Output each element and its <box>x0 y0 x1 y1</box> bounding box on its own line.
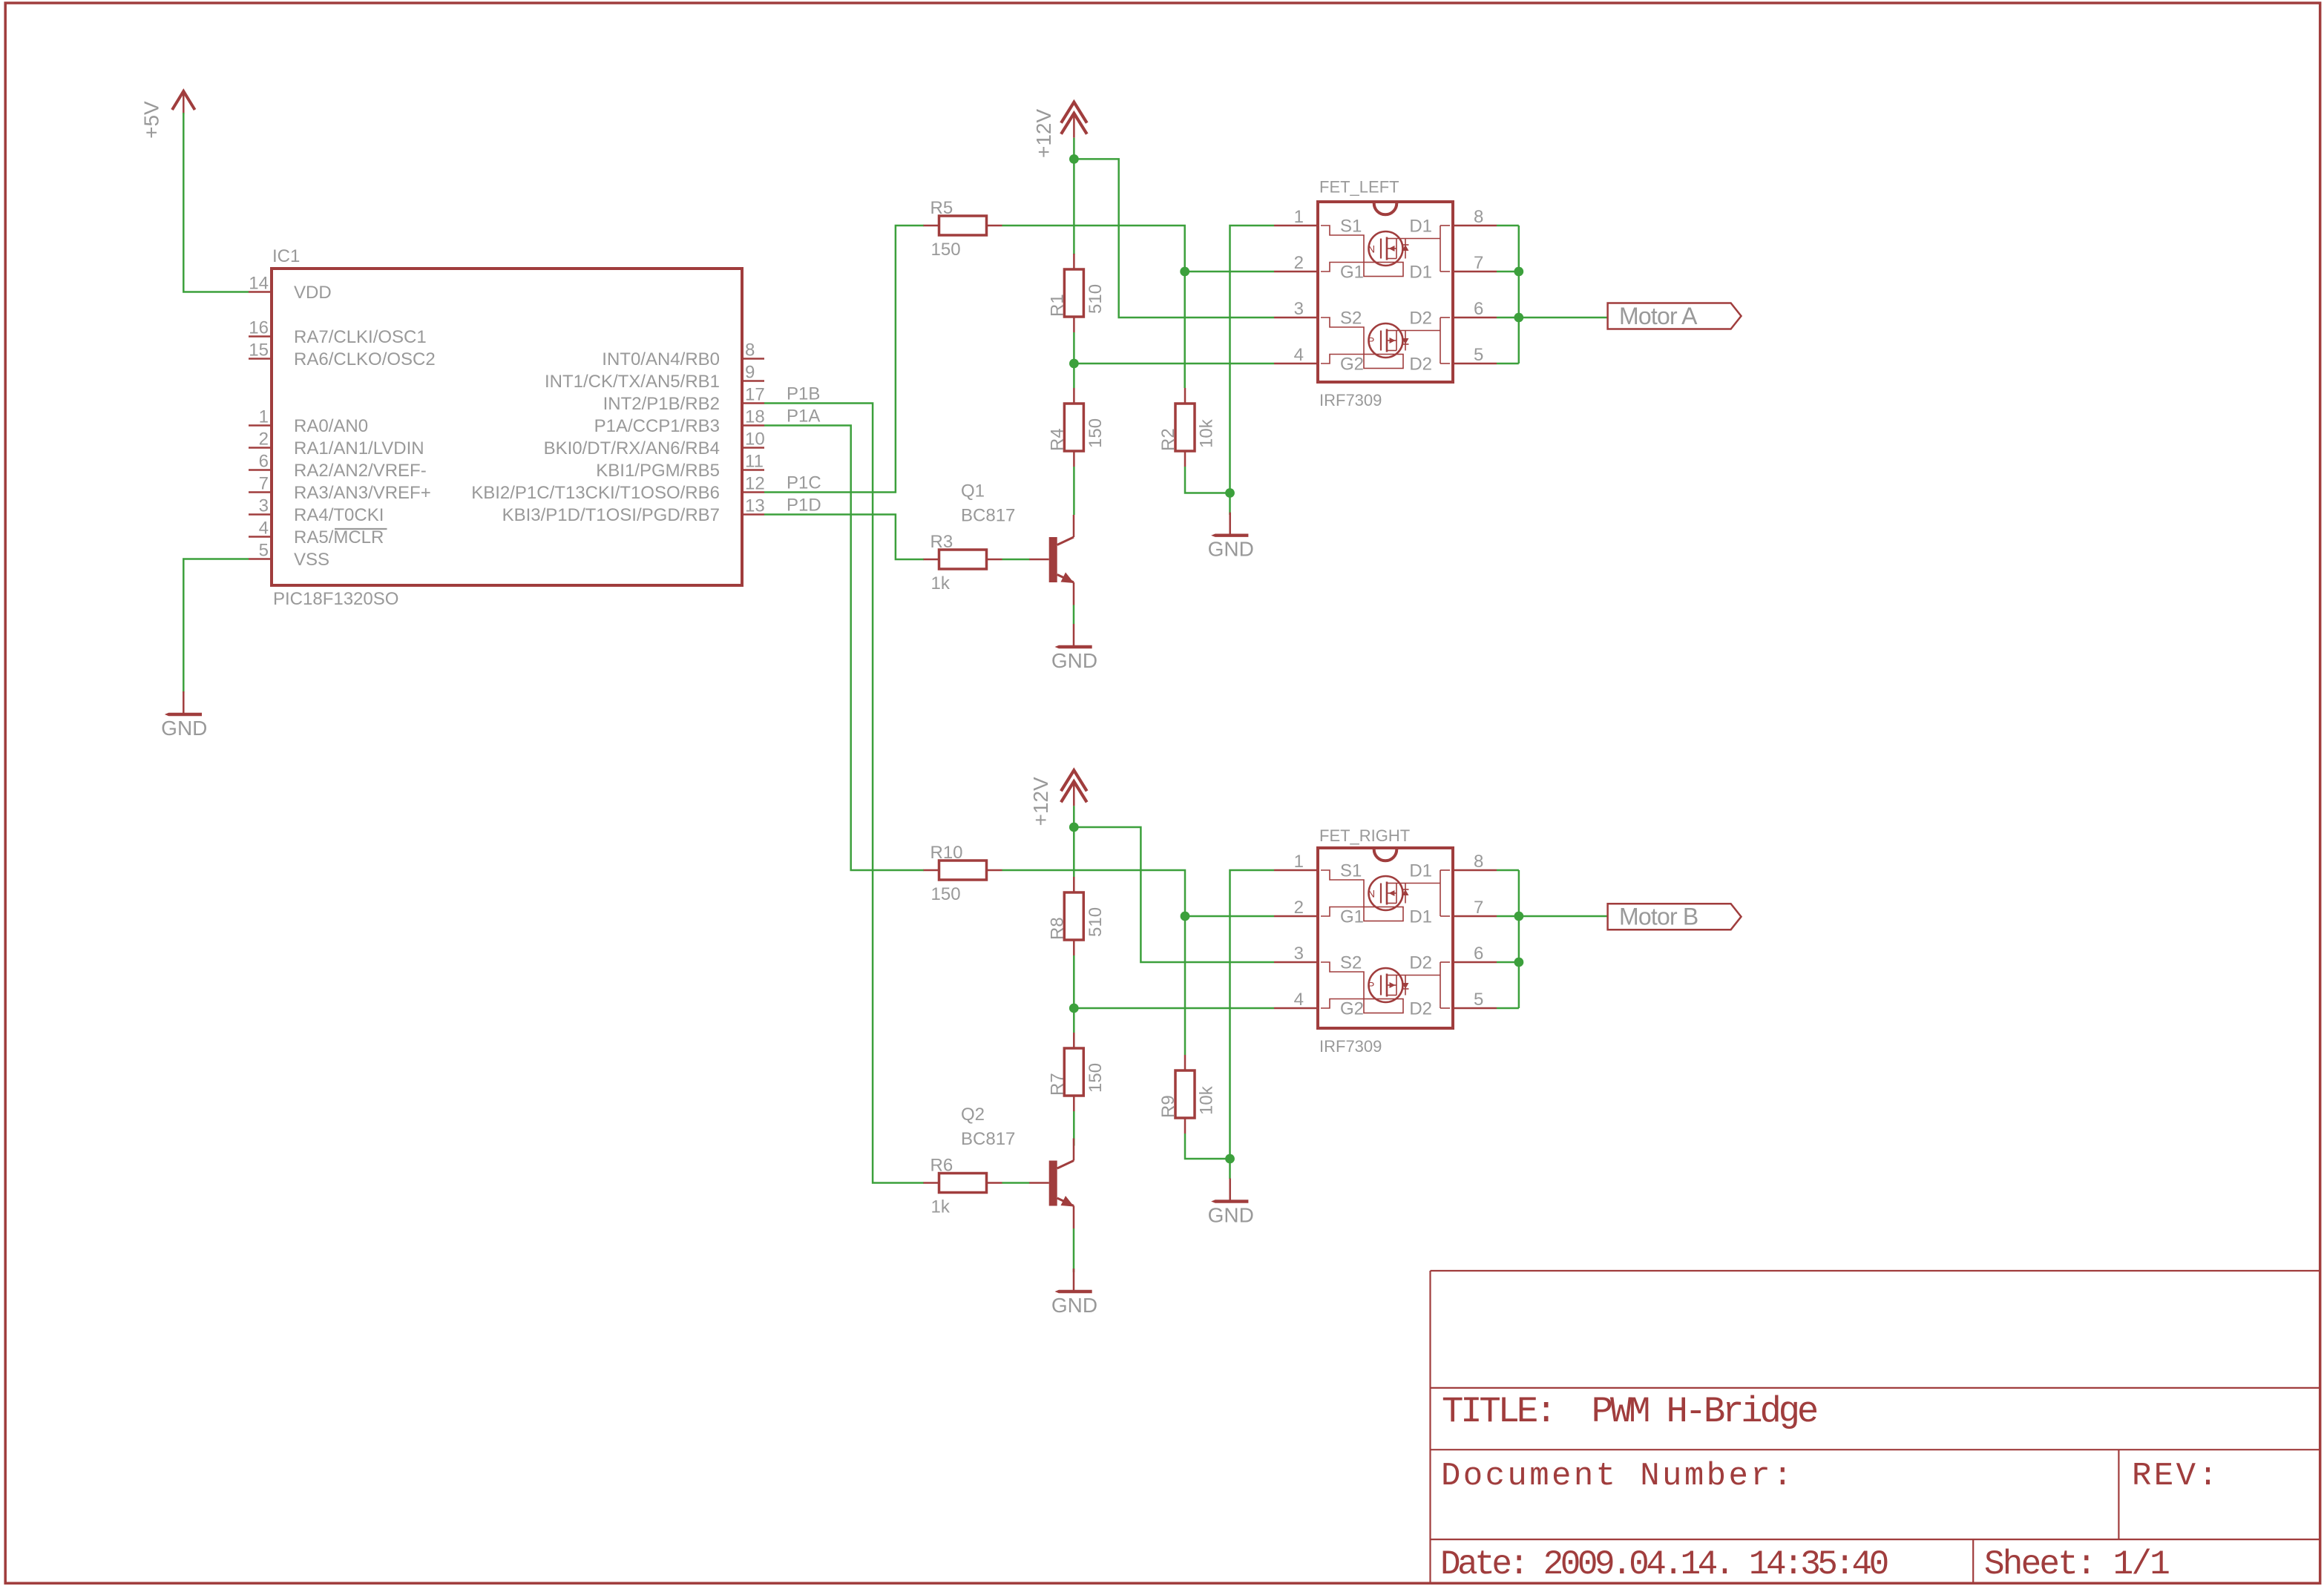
svg-text:RA0/AN0: RA0/AN0 <box>294 416 368 436</box>
wire Q1 emitter to ground <box>1073 605 1075 625</box>
svg-text:S2: S2 <box>1340 953 1362 973</box>
svg-text:Motor A: Motor A <box>1619 303 1698 329</box>
svg-text:R4: R4 <box>1047 428 1067 451</box>
svg-text:IRF7309: IRF7309 <box>1319 1037 1382 1056</box>
overline MCLR <box>335 528 387 530</box>
svg-text:Document Number:: Document Number: <box>1441 1458 1795 1495</box>
svg-text:1: 1 <box>1294 852 1304 872</box>
wire S1 pin 1 down to node lower <box>1230 870 1275 1159</box>
svg-text:RA7/CLKI/OSC1: RA7/CLKI/OSC1 <box>294 327 427 347</box>
junction G2 node <box>1069 359 1079 369</box>
junction S1 pulldown node lower <box>1225 1154 1235 1164</box>
wire R1 bottom to G2 node <box>1073 332 1075 363</box>
svg-text:D1: D1 <box>1409 263 1432 283</box>
svg-text:10k: 10k <box>1197 418 1217 448</box>
svg-text:RA2/AN2/VREF-: RA2/AN2/VREF- <box>294 461 427 481</box>
svg-text:R5: R5 <box>930 198 953 218</box>
svg-text:D2: D2 <box>1409 355 1432 375</box>
svg-text:1k: 1k <box>931 1197 951 1217</box>
svg-text:P1A/CCP1/RB3: P1A/CCP1/RB3 <box>594 416 720 436</box>
net flag Motor A <box>1608 303 1742 329</box>
ground GND at Q1 <box>1051 624 1097 672</box>
junction +12V node B <box>1069 823 1079 832</box>
resistor R2 <box>1158 388 1217 467</box>
svg-text:3: 3 <box>1294 299 1304 319</box>
svg-text:11: 11 <box>745 452 764 472</box>
junction G2 node lower <box>1069 1004 1079 1013</box>
svg-text:G2: G2 <box>1340 999 1364 1019</box>
svg-text:510: 510 <box>1086 284 1106 314</box>
title block frame <box>1431 1271 2320 1583</box>
svg-text:S1: S1 <box>1340 861 1362 881</box>
svg-text:6: 6 <box>1474 944 1483 964</box>
svg-text:7: 7 <box>1474 898 1483 918</box>
svg-text:3: 3 <box>259 496 269 516</box>
resistor R9 <box>1158 1055 1217 1134</box>
resistor R7 <box>1047 1033 1106 1111</box>
wire net P1A <box>764 426 924 871</box>
svg-text:PIC18F1320SO: PIC18F1320SO <box>273 589 398 609</box>
junction G1 node <box>1180 267 1189 277</box>
svg-text:P1D: P1D <box>787 496 821 516</box>
svg-text:10k: 10k <box>1197 1085 1217 1115</box>
junction +12V node A <box>1069 154 1079 164</box>
svg-text:KBI1/PGM/RB5: KBI1/PGM/RB5 <box>596 461 720 481</box>
svg-text:G1: G1 <box>1340 907 1364 927</box>
wire R7 to Q2 collector <box>1073 1111 1075 1146</box>
svg-text:P: P <box>1368 335 1374 347</box>
wire net P1B <box>764 404 924 1183</box>
resistor R6 <box>924 1156 1002 1217</box>
wire R10 to G1 vertical lower <box>1002 870 1186 1055</box>
svg-text:P: P <box>1368 980 1374 992</box>
svg-text:REV:: REV: <box>2132 1458 2220 1495</box>
svg-text:R6: R6 <box>930 1156 953 1176</box>
svg-text:3: 3 <box>1294 944 1304 964</box>
svg-text:150: 150 <box>931 884 961 904</box>
svg-text:+12V: +12V <box>1032 109 1055 158</box>
wire net P1D <box>764 515 924 560</box>
wire +12V to S2 pin 3 lower <box>1074 827 1274 962</box>
svg-text:150: 150 <box>931 240 961 260</box>
wire G2 to pin 4 <box>1074 363 1274 365</box>
ground GND left <box>161 691 207 740</box>
svg-text:150: 150 <box>1086 418 1106 448</box>
transistor Q2 BC817 <box>1029 1139 1074 1229</box>
svg-text:D2: D2 <box>1409 999 1432 1019</box>
svg-text:16: 16 <box>249 318 269 338</box>
svg-text:GND: GND <box>1208 1204 1254 1227</box>
svg-text:VSS: VSS <box>294 550 329 570</box>
svg-text:Q2: Q2 <box>961 1105 985 1125</box>
svg-text:R1: R1 <box>1047 294 1067 317</box>
svg-text:G1: G1 <box>1340 263 1364 283</box>
svg-text:D1: D1 <box>1409 907 1432 927</box>
wire G2 node to R7 <box>1073 1008 1075 1033</box>
supply +12V symbol <box>1061 770 1087 806</box>
junction S1 pulldown node <box>1225 488 1235 498</box>
svg-text:R3: R3 <box>930 532 953 552</box>
IC FET_LEFT IRF7309 dual MOSFET <box>1274 202 1497 382</box>
svg-text:BC817: BC817 <box>961 506 1015 526</box>
junction D1 bus <box>1514 267 1523 277</box>
svg-text:8: 8 <box>745 340 755 361</box>
svg-text:14: 14 <box>249 274 269 294</box>
resistor R10 <box>924 843 1002 904</box>
svg-text:P1B: P1B <box>787 384 820 404</box>
svg-text:7: 7 <box>259 474 269 494</box>
wire D1 D2 output bus left FET <box>1497 226 1519 363</box>
junction D1 bus lower <box>1514 912 1524 921</box>
svg-text:P1C: P1C <box>787 473 821 493</box>
wire G1 to pin 2 lower <box>1185 915 1274 918</box>
svg-text:IC1: IC1 <box>272 246 300 266</box>
svg-text:+12V: +12V <box>1029 777 1052 826</box>
svg-text:S1: S1 <box>1340 217 1362 237</box>
transistor Q1 BC817 <box>1029 515 1074 605</box>
svg-text:2: 2 <box>1294 898 1304 918</box>
svg-text:BKI0/DT/RX/AN6/RB4: BKI0/DT/RX/AN6/RB4 <box>544 438 720 458</box>
svg-text:GND: GND <box>161 717 207 740</box>
junction G1 node lower <box>1181 912 1190 921</box>
wire to Motor A flag <box>1519 317 1608 319</box>
svg-text:15: 15 <box>249 340 269 361</box>
wire R9 bottom to S1 node lower <box>1185 1134 1230 1159</box>
svg-text:KBI3/P1D/T1OSI/PGD/RB7: KBI3/P1D/T1OSI/PGD/RB7 <box>502 505 720 525</box>
supply +5V symbol <box>172 91 195 114</box>
svg-text:13: 13 <box>745 496 765 516</box>
ground GND at Q2 <box>1051 1269 1097 1317</box>
wire G2 to pin 4 lower <box>1074 1007 1274 1010</box>
wire R4 to Q1 collector <box>1073 467 1075 515</box>
svg-text:2: 2 <box>259 430 269 450</box>
wire +12V to S2 pin 3 <box>1074 159 1274 318</box>
svg-text:FET_RIGHT: FET_RIGHT <box>1319 826 1410 845</box>
wire S1 pin 1 down to node <box>1230 226 1275 493</box>
svg-text:N: N <box>1368 888 1375 900</box>
svg-text:9: 9 <box>745 363 755 383</box>
wire node to ground lower <box>1229 1159 1231 1179</box>
svg-text:R8: R8 <box>1047 917 1067 940</box>
svg-text:D2: D2 <box>1409 953 1432 973</box>
wire to Motor B flag <box>1519 915 1608 918</box>
svg-text:5: 5 <box>259 541 269 561</box>
IC IC1 PIC18F1320SO <box>249 269 765 585</box>
wire R2 bottom to S1 node <box>1185 467 1230 493</box>
svg-text:R10: R10 <box>930 843 963 863</box>
svg-text:Date: 2009.04.14. 14:35:40: Date: 2009.04.14. 14:35:40 <box>1440 1545 1888 1584</box>
svg-text:1: 1 <box>1294 207 1304 227</box>
svg-text:TITLE: PWM H-Bridge: TITLE: PWM H-Bridge <box>1442 1391 1817 1432</box>
ground GND at R2 <box>1208 513 1254 561</box>
svg-text:1k: 1k <box>931 573 951 593</box>
svg-text:KBI2/P1C/T13CKI/T1OSO/RB6: KBI2/P1C/T13CKI/T1OSO/RB6 <box>471 483 720 503</box>
svg-text:GND: GND <box>1051 649 1097 672</box>
svg-text:R7: R7 <box>1047 1073 1067 1096</box>
svg-text:2: 2 <box>1294 253 1304 273</box>
resistor R3 <box>924 532 1002 593</box>
svg-text:RA4/T0CKI: RA4/T0CKI <box>294 505 384 525</box>
svg-text:510: 510 <box>1086 907 1106 937</box>
wire G1 to pin 2 <box>1185 271 1274 273</box>
svg-text:5: 5 <box>1474 990 1483 1010</box>
svg-text:RA6/CLKO/OSC2: RA6/CLKO/OSC2 <box>294 349 436 369</box>
svg-text:10: 10 <box>745 430 765 450</box>
wire VSS pin 5 to GND <box>183 559 249 694</box>
wire G2 node to R4 <box>1073 363 1075 388</box>
svg-text:R2: R2 <box>1158 428 1178 451</box>
svg-text:S2: S2 <box>1340 309 1362 329</box>
svg-text:+5V: +5V <box>139 101 163 139</box>
svg-text:RA1/AN1/LVDIN: RA1/AN1/LVDIN <box>294 438 424 458</box>
wire net P1C <box>764 226 924 493</box>
svg-text:8: 8 <box>1474 207 1483 227</box>
svg-text:INT2/P1B/RB2: INT2/P1B/RB2 <box>603 394 720 414</box>
svg-text:RA5/MCLR: RA5/MCLR <box>294 527 384 547</box>
net flag Motor B <box>1608 904 1742 930</box>
wire R8 bottom to G2 node lower <box>1073 955 1075 1008</box>
svg-text:VDD: VDD <box>294 283 332 303</box>
svg-text:BC817: BC817 <box>961 1129 1015 1149</box>
svg-text:4: 4 <box>1294 345 1304 365</box>
wire node to ground <box>1229 493 1231 516</box>
supply +12V symbol <box>1061 102 1087 138</box>
wire Q2 emitter to ground <box>1073 1228 1075 1272</box>
svg-text:Sheet: 1/1: Sheet: 1/1 <box>1984 1545 2169 1584</box>
svg-text:INT1/CK/TX/AN5/RB1: INT1/CK/TX/AN5/RB1 <box>545 372 720 392</box>
svg-text:G2: G2 <box>1340 355 1364 375</box>
wire D1 D2 output bus right FET <box>1497 870 1519 1008</box>
svg-text:1: 1 <box>259 407 269 427</box>
svg-text:FET_LEFT: FET_LEFT <box>1319 178 1399 197</box>
svg-text:7: 7 <box>1474 253 1483 273</box>
svg-text:P1A: P1A <box>787 407 820 427</box>
svg-text:6: 6 <box>259 452 269 472</box>
wire +12V stem <box>1073 138 1075 159</box>
svg-text:150: 150 <box>1086 1063 1106 1093</box>
svg-text:4: 4 <box>1294 990 1304 1010</box>
resistor R1 <box>1047 254 1106 332</box>
resistor R4 <box>1047 388 1106 467</box>
wire +5V to VDD pin 14 <box>183 113 249 292</box>
svg-text:IRF7309: IRF7309 <box>1319 391 1382 409</box>
wire +12V to R8 <box>1073 827 1075 878</box>
svg-text:Motor B: Motor B <box>1619 904 1698 930</box>
svg-text:5: 5 <box>1474 345 1483 365</box>
svg-text:6: 6 <box>1474 299 1483 319</box>
svg-text:N: N <box>1368 243 1375 255</box>
resistor R8 <box>1047 877 1106 955</box>
svg-text:R9: R9 <box>1158 1095 1178 1118</box>
svg-text:17: 17 <box>745 385 765 405</box>
svg-text:12: 12 <box>745 474 765 494</box>
svg-text:GND: GND <box>1051 1294 1097 1317</box>
svg-text:8: 8 <box>1474 852 1483 872</box>
svg-text:D1: D1 <box>1409 861 1432 881</box>
svg-text:4: 4 <box>259 519 269 539</box>
svg-text:18: 18 <box>745 407 765 427</box>
wire R5 to G1 vertical <box>1002 226 1185 388</box>
resistor R5 <box>924 198 1002 260</box>
wire R6 to Q2 base <box>1002 1182 1030 1184</box>
svg-text:INT0/AN4/RB0: INT0/AN4/RB0 <box>602 349 720 369</box>
wire +12V to R1 <box>1073 159 1075 254</box>
wire R3 to Q1 base <box>1002 559 1030 561</box>
svg-text:D2: D2 <box>1409 309 1432 329</box>
junction D2 bus <box>1514 313 1523 323</box>
wire +12V stem 2 <box>1073 806 1075 827</box>
IC FET_RIGHT IRF7309 dual MOSFET <box>1274 848 1497 1028</box>
ground GND at R9 <box>1208 1179 1254 1227</box>
junction D2 bus lower <box>1514 958 1524 967</box>
svg-text:Q1: Q1 <box>961 481 985 501</box>
svg-text:GND: GND <box>1208 538 1254 561</box>
svg-text:RA3/AN3/VREF+: RA3/AN3/VREF+ <box>294 483 431 503</box>
svg-text:D1: D1 <box>1409 217 1432 237</box>
